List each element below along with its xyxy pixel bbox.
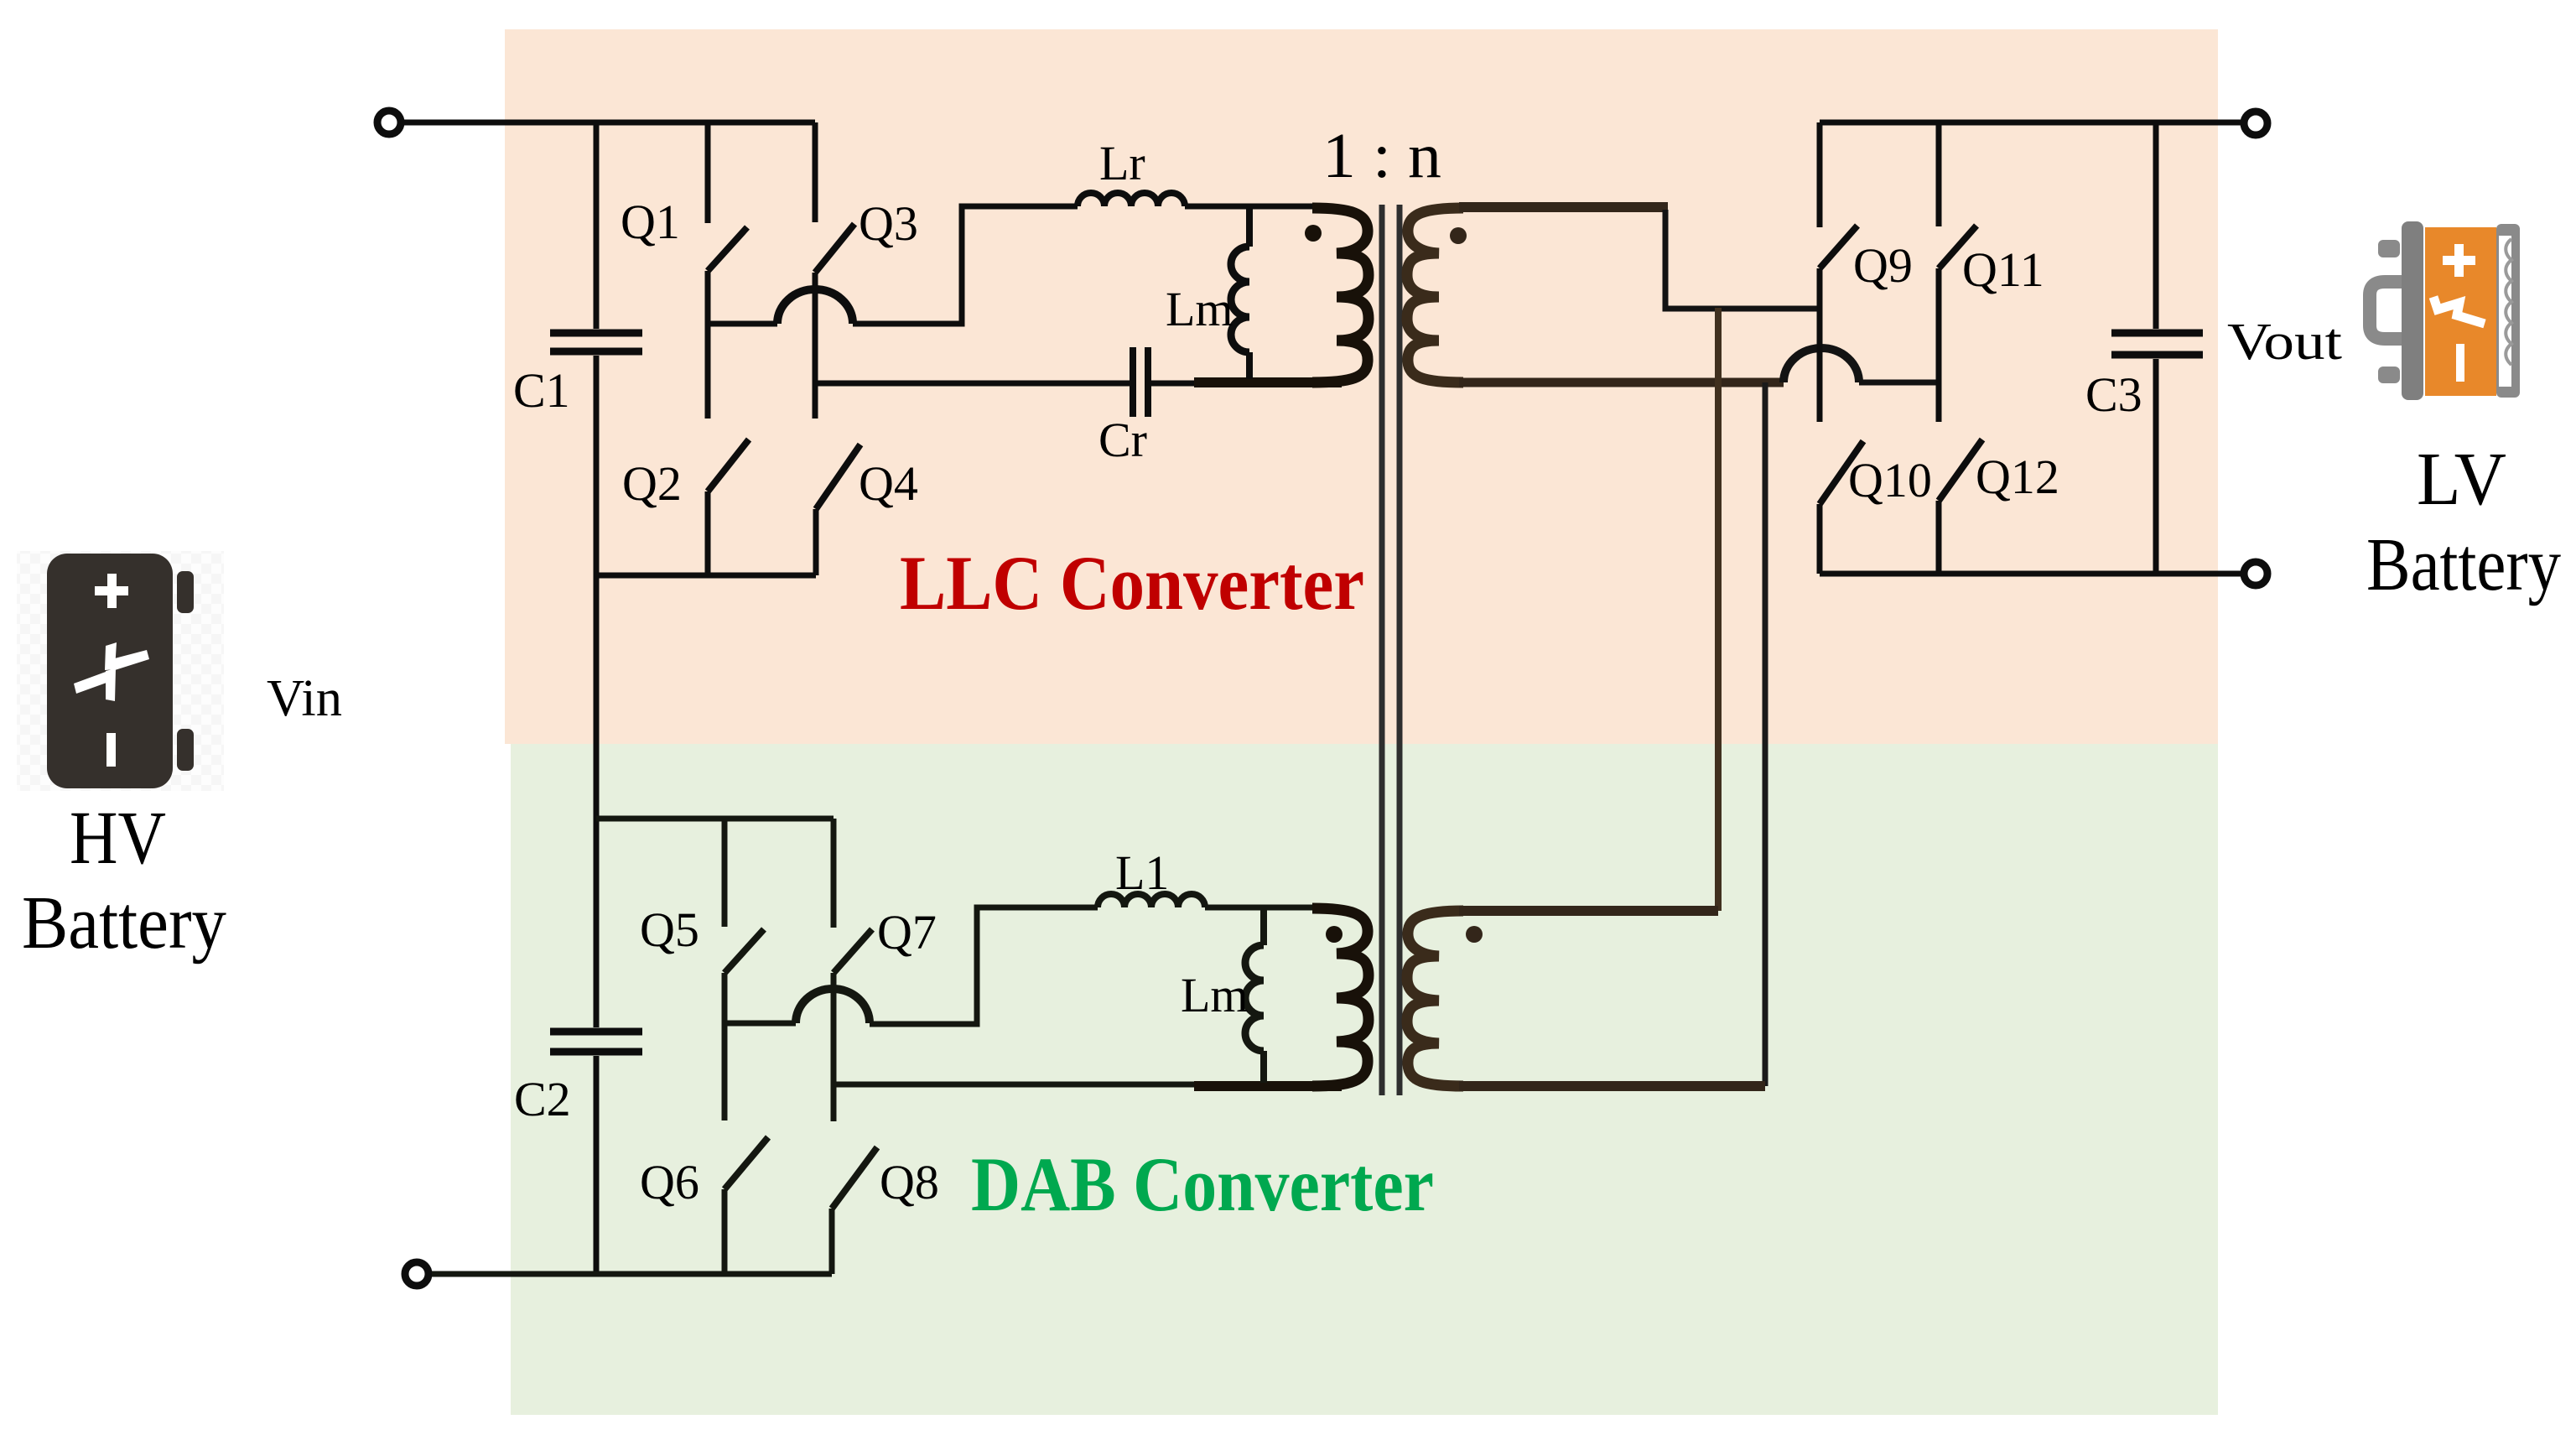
wire Lm LLC lower <box>1246 352 1253 379</box>
wire cross link lower (to DAB sec bottom) <box>1763 382 1768 1086</box>
wire Lr to primary top <box>1185 204 1317 210</box>
wire bottom bus DAB <box>432 1271 832 1277</box>
transformer T2 primary dot <box>1326 926 1343 943</box>
transformer core <box>1382 205 1400 1095</box>
svg-text:LV: LV <box>2417 438 2506 521</box>
wire hop to riser <box>853 206 1078 324</box>
wire LLC primary bottom <box>1194 377 1342 387</box>
wire C3 leg lower <box>2153 359 2159 574</box>
wire hop to riser DAB <box>870 907 1098 1024</box>
svg-text:Battery: Battery <box>22 881 226 964</box>
switch Q11 <box>1939 122 1976 422</box>
LLC converter region background <box>505 29 2218 744</box>
svg-text:Q3: Q3 <box>859 196 918 251</box>
terminal top-left <box>377 111 401 134</box>
svg-text:Q2: Q2 <box>622 456 682 511</box>
transformer T1 secondary dot <box>1450 227 1467 244</box>
wire C1-C2 link vertical <box>594 356 600 1027</box>
switch Q9 <box>1820 122 1857 422</box>
svg-text:Vin: Vin <box>267 670 342 727</box>
svg-text:Lm: Lm <box>1166 282 1233 336</box>
svg-text:Q7: Q7 <box>877 905 937 959</box>
svg-text:LLC Converter: LLC Converter <box>900 540 1364 626</box>
inductor Lm DAB branch <box>1260 907 1267 945</box>
wire bottom bus LLC <box>596 573 816 579</box>
inductor Lr <box>1078 193 1185 206</box>
capacitor C2 <box>550 1032 642 1052</box>
wire T1 secondary bottom <box>1459 378 1784 387</box>
terminal bottom-right <box>2244 562 2267 585</box>
wire hop to Q11 leg <box>1859 380 1939 386</box>
battery LV icon <box>2370 221 2520 400</box>
transformer T1 secondary winding <box>1407 208 1463 382</box>
svg-text:Q8: Q8 <box>880 1155 939 1209</box>
svg-text:1 : n: 1 : n <box>1322 121 1441 191</box>
svg-text:L1: L1 <box>1115 845 1169 900</box>
terminal top-right <box>2244 112 2267 135</box>
wire Q3-Q4 midpoint to Cr <box>815 381 1130 387</box>
inductor Lm DAB coil <box>1245 945 1264 1051</box>
transformer T2 primary winding <box>1312 908 1368 1086</box>
wire C1 leg upper <box>594 122 600 329</box>
transformer T1 primary winding <box>1312 208 1368 382</box>
svg-text:Vout: Vout <box>2227 314 2342 371</box>
svg-text:Q6: Q6 <box>640 1155 699 1209</box>
wire C2 leg lower <box>594 1056 600 1274</box>
inductor Lm LLC branch <box>1246 206 1253 247</box>
svg-text:Cr: Cr <box>1098 413 1147 467</box>
switch Q12 <box>1939 439 1982 574</box>
wire hop over Q3 leg <box>777 289 853 324</box>
wire Q1-Q2 midpoint to hop <box>708 321 777 327</box>
wire top bus DAB <box>596 816 834 822</box>
switch Q2 <box>708 439 749 575</box>
switch Q1 <box>708 122 747 419</box>
wire T2 secondary bottom <box>1459 1081 1765 1091</box>
DAB converter region background <box>511 744 2218 1415</box>
capacitor C3 <box>2111 333 2203 355</box>
svg-text:Q1: Q1 <box>621 195 680 249</box>
svg-text:Lr: Lr <box>1099 136 1145 190</box>
switch Q7 <box>834 819 872 1121</box>
switch Q5 <box>724 819 764 1120</box>
svg-text:Q11: Q11 <box>1962 242 2044 297</box>
battery HV icon <box>17 551 224 791</box>
svg-text:C3: C3 <box>2085 367 2142 422</box>
transformer T2 secondary winding <box>1407 911 1463 1086</box>
capacitor Cr <box>1133 347 1148 417</box>
wire secondary top riser <box>1665 210 1820 309</box>
wire Q5-Q6 midpoint to hop <box>724 1021 796 1027</box>
svg-text:Lm: Lm <box>1181 968 1249 1022</box>
wire C3 leg upper <box>2153 122 2159 329</box>
wire Cr to primary bottom <box>1151 381 1199 387</box>
svg-text:Q9: Q9 <box>1853 238 1913 293</box>
svg-text:Q5: Q5 <box>640 902 699 957</box>
wire Lm DAB lower <box>1260 1051 1267 1083</box>
svg-text:DAB Converter: DAB Converter <box>971 1141 1434 1227</box>
svg-text:Battery: Battery <box>2366 523 2561 606</box>
switch Q4 <box>816 445 860 575</box>
wire hop over Q7 leg <box>796 989 870 1023</box>
wire bottom bus right <box>1820 571 2241 577</box>
wire hop over Q9 leg <box>1784 348 1859 382</box>
wire cross link upper (LLC sec to DAB sec top) <box>1715 308 1722 911</box>
transformer T2 secondary dot <box>1466 926 1483 943</box>
inductor Lm LLC coil <box>1231 247 1249 352</box>
wire top bus right <box>1820 120 2241 126</box>
terminal bottom-left <box>405 1262 428 1286</box>
switch Q10 <box>1820 441 1863 574</box>
svg-text:Q12: Q12 <box>1976 450 2059 504</box>
wire T1 secondary top <box>1459 202 1668 212</box>
wire DAB primary bottom thick <box>1194 1081 1342 1091</box>
inductor L1 <box>1098 894 1205 907</box>
wire T2 secondary top <box>1459 906 1718 916</box>
switch Q8 <box>832 1147 877 1274</box>
capacitor C1 <box>550 333 642 351</box>
wire top bus LLC <box>404 120 815 126</box>
svg-text:Q10: Q10 <box>1848 453 1932 507</box>
switch Q3 <box>815 122 854 419</box>
svg-text:Q4: Q4 <box>859 456 918 511</box>
svg-text:HV: HV <box>70 797 166 880</box>
switch Q6 <box>724 1137 768 1274</box>
svg-text:C2: C2 <box>514 1072 571 1126</box>
wire Q7-Q8 midpoint to DAB primary bottom <box>834 1082 1199 1088</box>
wire L1 to DAB primary top <box>1205 905 1317 911</box>
svg-text:C1: C1 <box>513 363 570 418</box>
transformer T1 primary dot <box>1305 225 1322 242</box>
